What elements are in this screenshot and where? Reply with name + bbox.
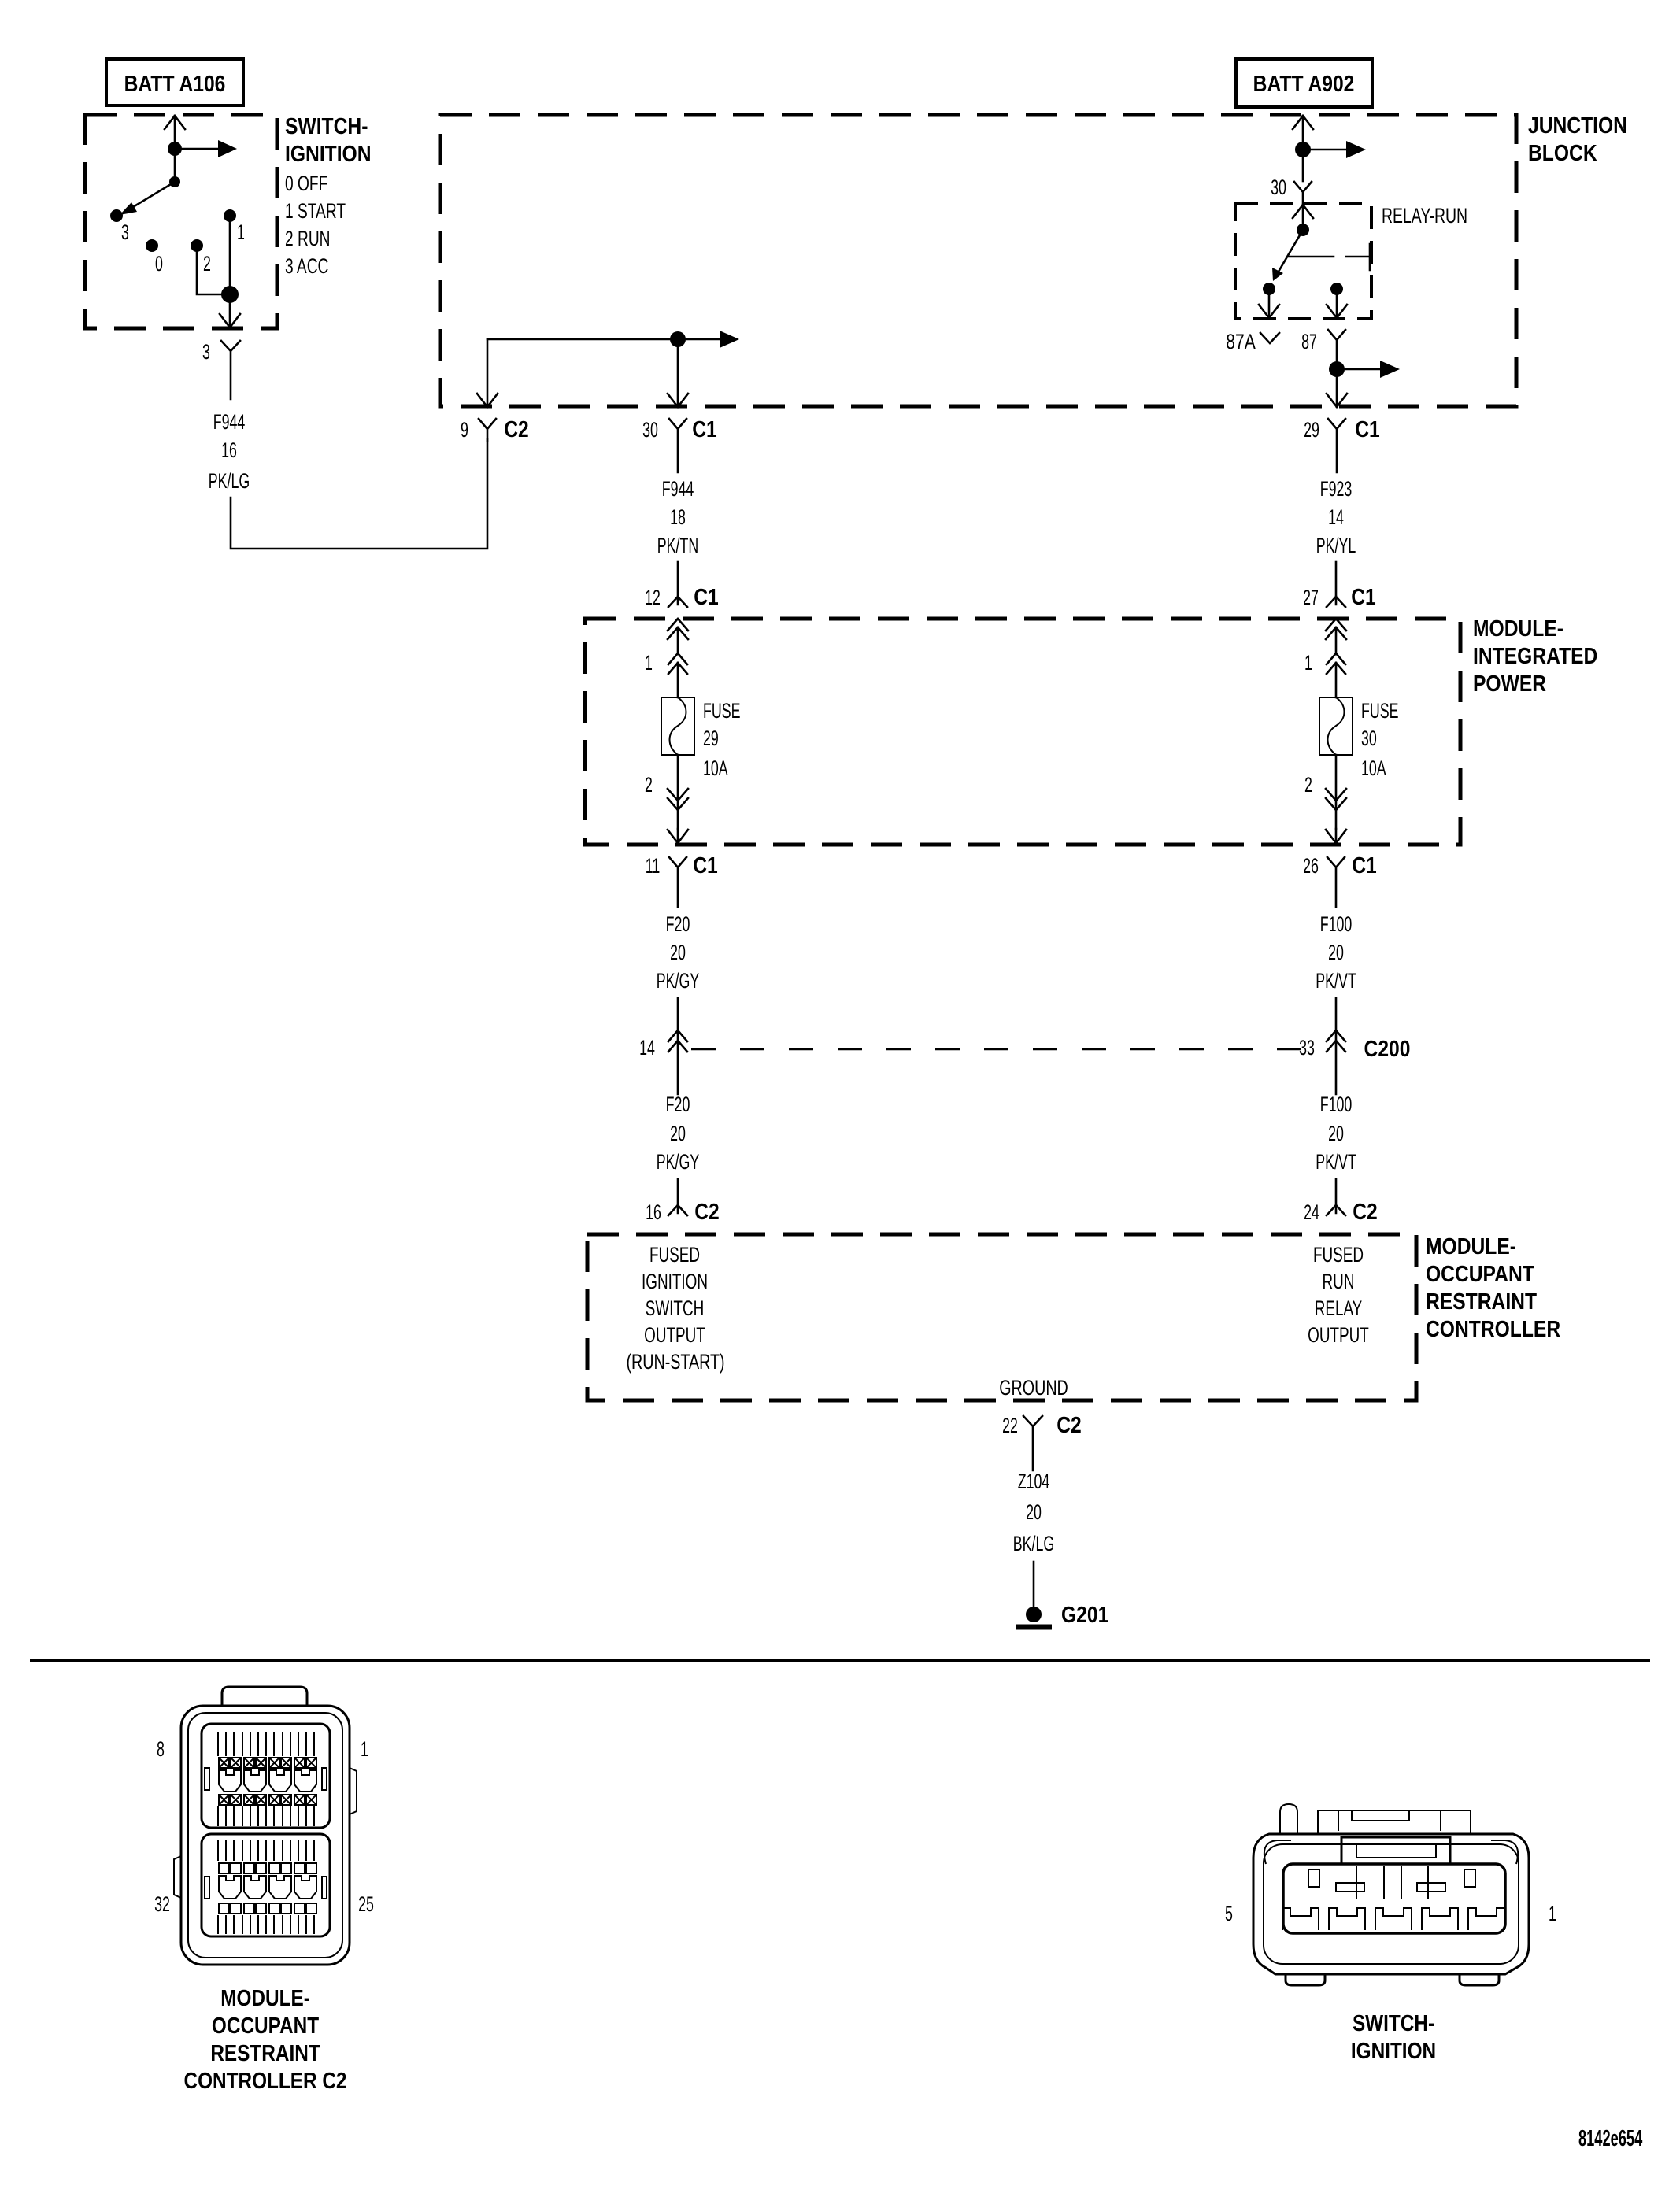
battery feed box BATT A902 bbox=[1236, 59, 1372, 107]
connector left side lug bbox=[174, 1856, 181, 1898]
wire down to 30 C1 with arrow bbox=[668, 339, 688, 407]
connector outer body bbox=[181, 1706, 350, 1965]
svg-text:16: 16 bbox=[221, 438, 237, 462]
svg-text:30: 30 bbox=[1271, 175, 1286, 199]
connector fork 29 C1 bbox=[1328, 419, 1345, 472]
svg-text:C1: C1 bbox=[1352, 852, 1377, 878]
svg-text:9: 9 bbox=[461, 417, 468, 442]
wire to BATT A106 with up arrow bbox=[165, 116, 185, 149]
svg-text:MODULE-: MODULE- bbox=[1426, 1233, 1516, 1259]
pin 87 down arrow bbox=[1327, 289, 1347, 318]
lower cavity terminal cavities bbox=[219, 1876, 316, 1899]
svg-text:3: 3 bbox=[202, 339, 210, 364]
svg-text:BK/LG: BK/LG bbox=[1013, 1531, 1054, 1555]
switch-ignition dashed box bbox=[85, 115, 277, 328]
relay contact bar bbox=[1289, 244, 1371, 270]
svg-text:RELAY: RELAY bbox=[1315, 1296, 1363, 1320]
module-integrated power dashed box bbox=[585, 619, 1460, 845]
lower cavity top comb bbox=[218, 1840, 314, 1861]
svg-text:20: 20 bbox=[670, 1121, 686, 1145]
arrow right from C1 feed dot bbox=[678, 338, 720, 341]
upper cavity side keys bbox=[205, 1768, 327, 1790]
svg-text:F944: F944 bbox=[662, 476, 694, 501]
svg-text:10A: 10A bbox=[703, 756, 728, 780]
svg-text:FUSED: FUSED bbox=[1313, 1243, 1364, 1267]
svg-text:FUSED: FUSED bbox=[649, 1243, 700, 1267]
connector fork 9 C2 bbox=[479, 419, 496, 441]
left exit arrow at module edge bbox=[668, 829, 688, 843]
upper cavity pin squares row 1 bbox=[219, 1758, 316, 1768]
connector drawing SWITCH-IGNITION bbox=[1253, 1804, 1529, 1974]
svg-text:87: 87 bbox=[1301, 329, 1317, 353]
svg-text:0: 0 bbox=[155, 251, 163, 275]
wire down to 12 C1 bbox=[677, 562, 679, 597]
connector fork 26 C1 bbox=[1327, 857, 1345, 907]
svg-text:RUN: RUN bbox=[1323, 1270, 1355, 1293]
fuse FUSE 30 10A bbox=[1319, 697, 1353, 755]
arrowhead at junction block edge (9 C2) bbox=[477, 339, 498, 407]
svg-text:RESTRAINT: RESTRAINT bbox=[1426, 1289, 1538, 1314]
svg-text:29: 29 bbox=[1304, 417, 1319, 442]
svg-text:PK/VT: PK/VT bbox=[1316, 1149, 1356, 1174]
wire down with arrow at box edge bbox=[220, 303, 240, 327]
right exit arrow at module edge bbox=[1326, 829, 1346, 843]
svg-text:14: 14 bbox=[1328, 505, 1344, 529]
svg-text:F100: F100 bbox=[1320, 1092, 1353, 1116]
svg-text:10A: 10A bbox=[1361, 756, 1386, 780]
ignition connector left hook bbox=[1264, 1840, 1291, 1864]
svg-text:PK/GY: PK/GY bbox=[657, 1149, 699, 1174]
svg-text:22: 22 bbox=[1002, 1413, 1018, 1437]
svg-text:87A: 87A bbox=[1226, 331, 1256, 354]
ignition connector cavity bbox=[1283, 1864, 1505, 1933]
wire from contact 1 down bbox=[229, 222, 231, 287]
svg-text:29: 29 bbox=[703, 726, 719, 750]
wire from ignition switch to junction block C2 bbox=[231, 439, 487, 549]
svg-text:C2: C2 bbox=[694, 1199, 720, 1224]
contact 0 bbox=[146, 239, 158, 252]
wire down through splice 33 bbox=[1335, 998, 1338, 1094]
svg-text:25: 25 bbox=[358, 1892, 374, 1916]
svg-text:OCCUPANT: OCCUPANT bbox=[1426, 1261, 1534, 1286]
svg-text:11: 11 bbox=[646, 853, 660, 878]
svg-text:FUSE: FUSE bbox=[1361, 698, 1398, 723]
lower cavity pin squares row 2 bbox=[219, 1903, 316, 1914]
svg-text:2 RUN: 2 RUN bbox=[285, 227, 331, 250]
svg-text:Z104: Z104 bbox=[1018, 1469, 1050, 1493]
svg-text:F100: F100 bbox=[1320, 912, 1353, 936]
fuse FUSE 29 10A bbox=[661, 697, 694, 755]
junction dot switch common bbox=[168, 142, 182, 156]
ignition connector top dome bbox=[1280, 1804, 1297, 1834]
junction block dashed box bbox=[440, 115, 1516, 406]
lower cavity bottom comb bbox=[218, 1915, 314, 1934]
svg-text:BATT A902: BATT A902 bbox=[1253, 71, 1355, 96]
ignition connector right hook bbox=[1491, 1840, 1518, 1864]
svg-text:8: 8 bbox=[157, 1736, 165, 1761]
connector fork 12 C1 bbox=[668, 597, 687, 607]
svg-text:C1: C1 bbox=[1351, 584, 1376, 609]
wire down to 16 C2 bbox=[677, 1179, 679, 1205]
svg-text:PK/VT: PK/VT bbox=[1316, 968, 1356, 993]
ignition connector center latch bbox=[1341, 1837, 1450, 1864]
wire down to splice 14 bbox=[677, 998, 679, 1094]
svg-text:2: 2 bbox=[1304, 772, 1312, 797]
svg-text:PK/LG: PK/LG bbox=[209, 468, 250, 493]
svg-text:SWITCH-: SWITCH- bbox=[285, 113, 368, 139]
svg-text:PK/YL: PK/YL bbox=[1316, 533, 1356, 557]
pin 87A down arrow bbox=[1259, 289, 1279, 318]
connector fork 27 C1 bbox=[1327, 597, 1345, 607]
svg-text:SWITCH: SWITCH bbox=[646, 1296, 705, 1320]
svg-text:OUTPUT: OUTPUT bbox=[644, 1323, 705, 1347]
svg-text:16: 16 bbox=[646, 1200, 661, 1224]
connector fork 16 C2 bbox=[668, 1205, 687, 1215]
contact 1 bbox=[224, 209, 236, 222]
lower cavity side keys bbox=[205, 1877, 327, 1899]
svg-text:24: 24 bbox=[1304, 1200, 1319, 1224]
svg-text:PK/TN: PK/TN bbox=[657, 533, 698, 557]
svg-text:20: 20 bbox=[1328, 1121, 1344, 1145]
svg-text:C1: C1 bbox=[694, 584, 719, 609]
connector inner outline bbox=[188, 1713, 342, 1958]
ground G201 symbol bbox=[1026, 1607, 1042, 1622]
ignition connector outer body bbox=[1253, 1834, 1529, 1974]
junction dot relay output bbox=[1329, 361, 1345, 377]
svg-text:33: 33 bbox=[1299, 1035, 1315, 1059]
svg-text:IGNITION: IGNITION bbox=[285, 141, 372, 166]
svg-text:BLOCK: BLOCK bbox=[1528, 140, 1597, 165]
relay pin 87 dot bbox=[1330, 283, 1343, 295]
wire down to ground bbox=[1033, 1562, 1035, 1607]
svg-text:JUNCTION: JUNCTION bbox=[1528, 113, 1627, 138]
svg-text:20: 20 bbox=[670, 940, 686, 964]
svg-text:3 ACC: 3 ACC bbox=[285, 254, 328, 278]
junction dot C1 feed bbox=[670, 331, 686, 347]
svg-text:1: 1 bbox=[1304, 650, 1312, 675]
wire down to relay pin 30 bbox=[1302, 150, 1304, 181]
connector right side lug bbox=[350, 1768, 357, 1814]
upper cavity top comb bbox=[218, 1732, 314, 1756]
svg-text:OCCUPANT: OCCUPANT bbox=[212, 2013, 320, 2038]
svg-text:32: 32 bbox=[154, 1892, 170, 1916]
svg-text:C200: C200 bbox=[1364, 1036, 1411, 1061]
svg-text:C1: C1 bbox=[692, 416, 717, 442]
junction dot A902 feed bbox=[1295, 142, 1311, 157]
svg-text:RESTRAINT: RESTRAINT bbox=[210, 2040, 320, 2065]
svg-text:1: 1 bbox=[645, 650, 653, 675]
connector fork 22 C2 bbox=[1023, 1416, 1042, 1470]
wire down to 24 C2 bbox=[1335, 1179, 1338, 1205]
svg-text:C1: C1 bbox=[1355, 416, 1380, 442]
svg-text:5: 5 bbox=[1225, 1901, 1233, 1925]
connector upper cavity bbox=[202, 1724, 330, 1828]
ignition connector bottom feet bbox=[1286, 1974, 1499, 1985]
svg-text:12: 12 bbox=[645, 585, 661, 609]
svg-text:BATT A106: BATT A106 bbox=[124, 71, 226, 96]
svg-text:1: 1 bbox=[237, 220, 245, 244]
svg-text:IGNITION: IGNITION bbox=[642, 1270, 708, 1293]
arrow right from A902 feed dot bbox=[1303, 149, 1347, 151]
right entry arrows at module edge bbox=[1326, 619, 1346, 653]
svg-text:14: 14 bbox=[639, 1035, 655, 1059]
svg-text:F923: F923 bbox=[1320, 476, 1353, 501]
relay-run dashed box bbox=[1235, 204, 1371, 319]
svg-text:8142e654: 8142e654 bbox=[1578, 2126, 1643, 2151]
svg-text:30: 30 bbox=[1361, 726, 1377, 750]
svg-text:SWITCH-: SWITCH- bbox=[1353, 2010, 1434, 2036]
svg-text:PK/GY: PK/GY bbox=[657, 968, 699, 993]
svg-text:F20: F20 bbox=[666, 912, 690, 936]
svg-text:2: 2 bbox=[645, 772, 653, 797]
svg-text:C2: C2 bbox=[1353, 1199, 1378, 1224]
svg-text:IGNITION: IGNITION bbox=[1351, 2038, 1436, 2063]
svg-text:18: 18 bbox=[670, 505, 686, 529]
wire common down bbox=[174, 149, 176, 182]
svg-text:3: 3 bbox=[121, 220, 129, 244]
junction dot output bbox=[221, 286, 239, 303]
ignition connector top latch strip bbox=[1318, 1810, 1471, 1834]
svg-text:30: 30 bbox=[642, 417, 658, 442]
ignition connector cavity details bbox=[1308, 1866, 1475, 1899]
svg-text:1: 1 bbox=[361, 1736, 368, 1761]
upper cavity terminal cavities bbox=[219, 1770, 316, 1792]
svg-text:F944: F944 bbox=[213, 409, 246, 434]
connector fork 24 C2 bbox=[1327, 1205, 1345, 1215]
svg-text:1: 1 bbox=[1549, 1901, 1556, 1925]
svg-text:0 OFF: 0 OFF bbox=[285, 172, 327, 195]
switch wiper arm to position 3 bbox=[129, 182, 175, 209]
svg-text:2: 2 bbox=[203, 251, 211, 275]
svg-text:INTEGRATED: INTEGRATED bbox=[1473, 643, 1597, 668]
module-occupant restraint controller dashed box bbox=[587, 1234, 1416, 1400]
arrow right from switch common bbox=[175, 148, 220, 150]
connector lower cavity bbox=[202, 1834, 330, 1936]
contact 3 bbox=[110, 209, 123, 222]
svg-text:MODULE-: MODULE- bbox=[1473, 616, 1563, 641]
left entry arrows at module edge bbox=[668, 619, 688, 653]
svg-text:CONTROLLER: CONTROLLER bbox=[1426, 1316, 1560, 1341]
wire inside junction block from C2 to C1 feed bbox=[487, 338, 678, 341]
svg-text:26: 26 bbox=[1303, 853, 1319, 878]
ignition connector inner thin outline bbox=[1264, 1844, 1519, 1964]
separator line bbox=[30, 1659, 1650, 1662]
relay pin 30 fork bbox=[1294, 182, 1312, 203]
svg-text:C1: C1 bbox=[693, 852, 718, 878]
wire down to 29 C1 with arrow bbox=[1327, 369, 1347, 407]
splice dashed wire between 14 and 33 bbox=[691, 1048, 1324, 1051]
wire BATT A902 down with up arrow bbox=[1293, 116, 1313, 150]
upper cavity bottom comb bbox=[218, 1806, 314, 1826]
svg-text:POWER: POWER bbox=[1473, 671, 1546, 696]
ignition connector terminal slots bbox=[1282, 1908, 1504, 1930]
wire from contact 2 down and right bbox=[197, 252, 223, 294]
svg-text:OUTPUT: OUTPUT bbox=[1308, 1323, 1369, 1347]
upper cavity pin squares row 2 bbox=[219, 1795, 316, 1805]
connector fork 30 C1 bbox=[669, 419, 686, 472]
svg-text:C2: C2 bbox=[1056, 1412, 1082, 1437]
relay armature to 87A bbox=[1279, 230, 1303, 272]
svg-text:20: 20 bbox=[1328, 940, 1344, 964]
contact 2 bbox=[191, 239, 203, 252]
svg-text:RELAY-RUN: RELAY-RUN bbox=[1382, 204, 1467, 227]
relay common dot bbox=[1297, 224, 1309, 236]
svg-text:G201: G201 bbox=[1061, 1602, 1108, 1627]
wire down to 27 C1 bbox=[1335, 562, 1338, 597]
svg-text:1 START: 1 START bbox=[285, 199, 346, 223]
connector fork 11 C1 bbox=[669, 857, 686, 907]
battery feed box BATT A106 bbox=[106, 59, 243, 105]
relay pin 87A dot bbox=[1263, 283, 1275, 295]
pivot dot bbox=[169, 176, 180, 187]
svg-text:GROUND: GROUND bbox=[999, 1377, 1068, 1400]
svg-text:MODULE-: MODULE- bbox=[220, 1985, 310, 2010]
connector outer top tab bbox=[222, 1687, 307, 1706]
svg-text:F20: F20 bbox=[666, 1092, 690, 1116]
arrow right from relay output bbox=[1337, 368, 1381, 371]
svg-text:CONTROLLER C2: CONTROLLER C2 bbox=[184, 2068, 347, 2093]
svg-text:FUSE: FUSE bbox=[703, 698, 740, 723]
lower cavity pin squares row 1 bbox=[219, 1863, 316, 1873]
svg-text:C2: C2 bbox=[504, 416, 529, 442]
svg-text:27: 27 bbox=[1303, 585, 1319, 609]
svg-text:20: 20 bbox=[1026, 1500, 1042, 1524]
connector drawing MODULE-OCCUPANT RESTRAINT CONTROLLER C2 bbox=[174, 1687, 357, 1965]
svg-text:(RUN-START): (RUN-START) bbox=[626, 1351, 724, 1374]
relay pin 30 entry arrow bbox=[1293, 205, 1313, 230]
